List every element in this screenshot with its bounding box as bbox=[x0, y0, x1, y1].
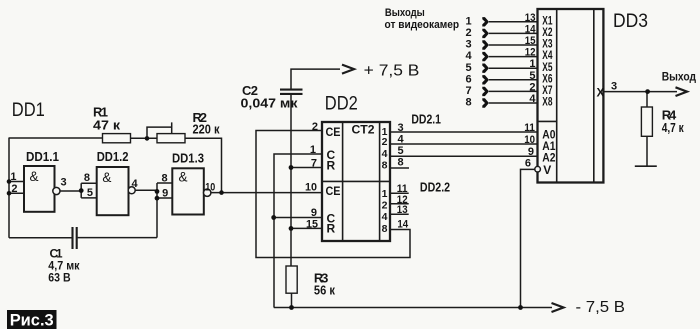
svg-text:13: 13 bbox=[397, 204, 408, 216]
svg-text:56 к: 56 к bbox=[314, 283, 335, 298]
svg-text:4: 4 bbox=[132, 178, 139, 190]
svg-text:3: 3 bbox=[61, 177, 67, 189]
svg-text:8: 8 bbox=[398, 157, 404, 169]
svg-text:DD1.2: DD1.2 bbox=[97, 150, 129, 164]
svg-text:&: & bbox=[102, 170, 111, 185]
svg-text:9: 9 bbox=[528, 146, 534, 158]
svg-text:X: X bbox=[597, 86, 605, 100]
svg-text:+ 7,5 В: + 7,5 В bbox=[364, 63, 420, 80]
svg-text:CT2: CT2 bbox=[352, 123, 375, 137]
svg-text:Выходы: Выходы bbox=[385, 7, 425, 19]
svg-text:9: 9 bbox=[162, 188, 168, 200]
svg-text:CE: CE bbox=[326, 184, 341, 198]
svg-text:8: 8 bbox=[465, 97, 471, 109]
svg-text:2: 2 bbox=[382, 199, 388, 211]
svg-text:DD1.1: DD1.1 bbox=[26, 150, 59, 164]
svg-text:DD1: DD1 bbox=[12, 100, 45, 121]
svg-text:4,7 к: 4,7 к bbox=[662, 120, 684, 135]
svg-text:0,047 мк: 0,047 мк bbox=[241, 96, 299, 111]
svg-text:8: 8 bbox=[161, 172, 167, 184]
svg-text:7: 7 bbox=[311, 158, 317, 170]
svg-text:47 к: 47 к bbox=[93, 118, 121, 133]
svg-text:от видеокамер: от видеокамер bbox=[385, 19, 460, 31]
svg-text:3: 3 bbox=[398, 122, 404, 134]
svg-text:&: & bbox=[30, 169, 39, 184]
svg-text:- 7,5 В: - 7,5 В bbox=[576, 299, 626, 316]
svg-text:X8: X8 bbox=[542, 95, 552, 109]
svg-text:63 В: 63 В bbox=[48, 270, 71, 284]
svg-text:1: 1 bbox=[10, 171, 16, 183]
svg-text:12: 12 bbox=[525, 47, 536, 59]
svg-text:2: 2 bbox=[382, 136, 388, 148]
svg-text:14: 14 bbox=[397, 219, 409, 231]
svg-text:8: 8 bbox=[84, 172, 90, 184]
svg-text:R: R bbox=[327, 158, 336, 172]
svg-text:CE: CE bbox=[326, 125, 341, 139]
svg-text:6: 6 bbox=[525, 157, 531, 169]
svg-text:13: 13 bbox=[525, 12, 536, 24]
svg-text:15: 15 bbox=[525, 35, 536, 47]
svg-text:5: 5 bbox=[529, 70, 535, 82]
svg-text:11: 11 bbox=[524, 122, 535, 134]
svg-text:10: 10 bbox=[305, 182, 317, 194]
svg-text:14: 14 bbox=[525, 23, 537, 35]
svg-text:4: 4 bbox=[529, 93, 536, 105]
svg-text:DD2: DD2 bbox=[325, 94, 358, 115]
svg-text:4: 4 bbox=[398, 134, 405, 146]
svg-text:3: 3 bbox=[611, 80, 617, 92]
svg-text:R: R bbox=[327, 222, 336, 236]
svg-text:5: 5 bbox=[87, 187, 93, 199]
svg-text:10: 10 bbox=[524, 134, 535, 146]
svg-text:1: 1 bbox=[310, 144, 316, 156]
svg-text:3: 3 bbox=[465, 39, 471, 51]
svg-text:10: 10 bbox=[205, 182, 215, 194]
svg-text:V: V bbox=[543, 163, 551, 177]
svg-text:Выход: Выход bbox=[662, 70, 697, 84]
svg-text:2: 2 bbox=[529, 81, 535, 93]
svg-text:1: 1 bbox=[382, 188, 388, 200]
svg-text:8: 8 bbox=[382, 159, 388, 171]
svg-text:DD1.3: DD1.3 bbox=[172, 152, 204, 166]
svg-text:Рис.3: Рис.3 bbox=[10, 312, 54, 329]
svg-text:&: & bbox=[179, 169, 188, 184]
svg-text:6: 6 bbox=[465, 73, 471, 85]
svg-text:4: 4 bbox=[382, 148, 388, 160]
svg-text:DD2.2: DD2.2 bbox=[420, 180, 450, 195]
svg-text:15: 15 bbox=[306, 218, 318, 230]
svg-text:2: 2 bbox=[11, 183, 17, 195]
svg-text:5: 5 bbox=[398, 145, 404, 157]
svg-text:7: 7 bbox=[465, 85, 471, 97]
svg-text:4: 4 bbox=[382, 211, 388, 223]
svg-text:DD3: DD3 bbox=[613, 11, 648, 32]
svg-text:2: 2 bbox=[312, 121, 318, 133]
svg-text:9: 9 bbox=[311, 207, 317, 219]
svg-text:4: 4 bbox=[465, 50, 472, 62]
svg-text:1: 1 bbox=[529, 58, 535, 70]
svg-text:2: 2 bbox=[465, 27, 471, 39]
svg-text:DD2.1: DD2.1 bbox=[411, 111, 441, 126]
svg-text:8: 8 bbox=[382, 223, 388, 235]
svg-text:5: 5 bbox=[465, 62, 471, 74]
svg-text:220 к: 220 к bbox=[193, 122, 220, 137]
svg-text:1: 1 bbox=[465, 15, 471, 27]
